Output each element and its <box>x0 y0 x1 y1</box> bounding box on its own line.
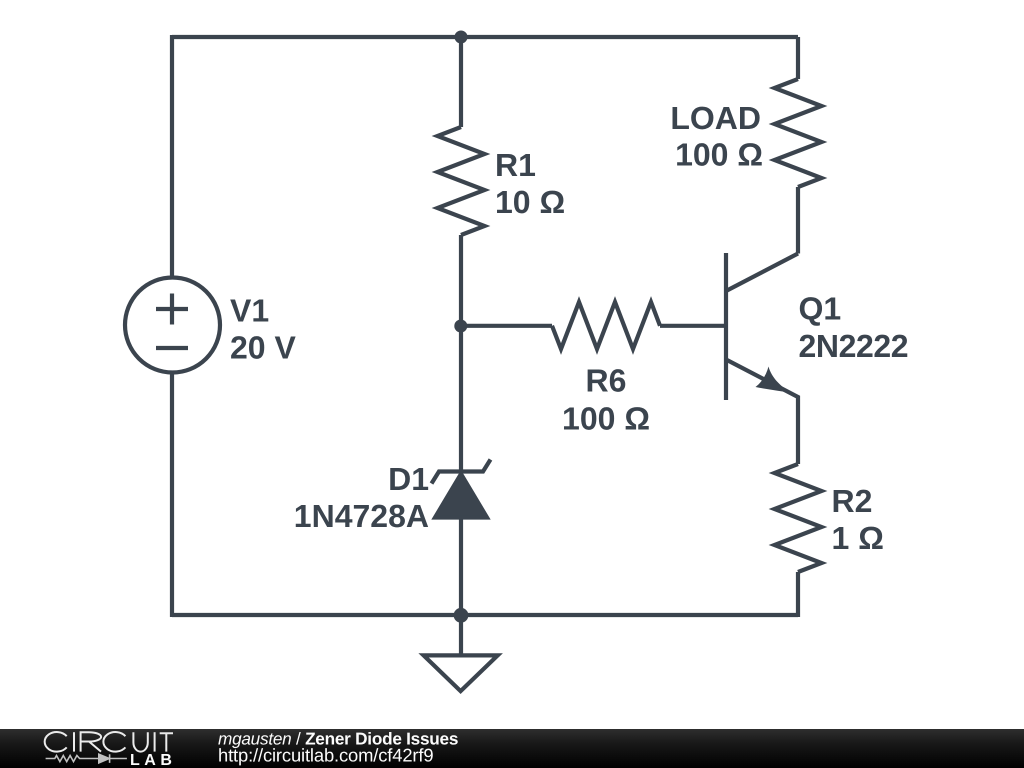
svg-text:1 Ω: 1 Ω <box>832 520 884 556</box>
svg-text:D1: D1 <box>388 461 429 497</box>
resistor R1 <box>438 37 485 326</box>
resistor R2 <box>775 464 822 617</box>
CircuitLab logo LAB <box>130 752 176 768</box>
svg-text:LAB: LAB <box>130 752 176 768</box>
wire R6 to Q1 base <box>660 324 726 328</box>
svg-text:100 Ω: 100 Ω <box>562 401 650 437</box>
footer url text <box>218 745 433 766</box>
zener diode D1 <box>432 326 491 615</box>
svg-text:10 Ω: 10 Ω <box>495 184 565 220</box>
wire left rail lower <box>170 372 174 617</box>
CircuitLab logo resistor-diode icon <box>46 754 127 763</box>
svg-text:20 V: 20 V <box>230 330 296 366</box>
wire left rail upper <box>170 35 174 278</box>
wire bottom rail <box>172 613 798 617</box>
resistor R6 <box>552 302 660 349</box>
node B middle junction <box>454 320 467 333</box>
svg-text:R1: R1 <box>495 147 536 183</box>
svg-text:R6: R6 <box>586 363 627 399</box>
svg-text:LOAD: LOAD <box>670 100 761 136</box>
svg-text:100 Ω: 100 Ω <box>675 137 763 173</box>
svg-text:R2: R2 <box>832 483 873 519</box>
resistor LOAD <box>775 37 822 254</box>
voltage source V1 <box>125 278 220 373</box>
wire top rail <box>172 35 798 39</box>
footer bar <box>0 729 1024 768</box>
wire node A to R6 <box>461 324 552 328</box>
svg-text:Q1: Q1 <box>799 291 842 327</box>
node C bottom junction <box>454 608 469 623</box>
svg-text:V1: V1 <box>230 293 269 329</box>
svg-text:http://circuitlab.com/cf42rf9: http://circuitlab.com/cf42rf9 <box>218 745 433 766</box>
transistor Q1 <box>726 253 798 464</box>
svg-text:2N2222: 2N2222 <box>799 328 909 364</box>
ground <box>424 615 498 691</box>
svg-text:1N4728A: 1N4728A <box>294 498 429 534</box>
node A top junction <box>455 31 468 44</box>
CircuitLab logo CIRCUIT <box>45 732 173 752</box>
footer title text <box>218 729 458 749</box>
